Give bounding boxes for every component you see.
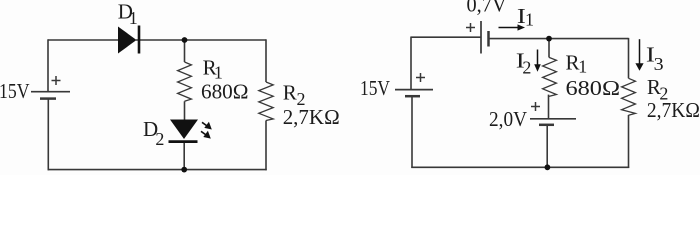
wire: left circuit middle branch LED to bottom rail: [183, 142, 185, 170]
svg-text:1: 1: [129, 8, 138, 28]
node: right circuit bottom junction dot: [545, 164, 551, 170]
wire: left circuit bottom rail: [48, 169, 267, 171]
svg-text:2: 2: [522, 58, 531, 78]
wire: right circuit left vertical above battery: [410, 37, 412, 90]
battery 15V (right circuit) short negative plate: [405, 95, 420, 98]
wire: right circuit right vertical below R2: [628, 115, 630, 168]
node: left circuit bottom junction dot: [181, 167, 187, 173]
wire: left circuit right vertical below R2: [265, 121, 267, 171]
battery 15V (right circuit) plus sign: [416, 73, 425, 82]
svg-text:2: 2: [155, 129, 164, 149]
svg-text:2,7KΩ: 2,7KΩ: [283, 105, 340, 129]
svg-text:R: R: [283, 81, 297, 105]
LED D2 light emission arrow lower: [201, 131, 211, 139]
resistor R1 (right circuit, 680 ohm) zigzag: [543, 57, 557, 96]
wire: right circuit bottom rail: [411, 166, 629, 168]
LED D2 (left circuit) triangle pointing down: [170, 120, 198, 140]
wire: right circuit right vertical above R2: [628, 38, 630, 78]
svg-text:1: 1: [578, 57, 587, 77]
svg-text:2,7KΩ: 2,7KΩ: [647, 98, 700, 122]
diode D1 cathode bar: [138, 26, 141, 54]
wire: left circuit left vertical below battery: [47, 99, 49, 171]
wire: left circuit right vertical above R2: [265, 39, 267, 82]
svg-text:0,7V: 0,7V: [467, 0, 507, 17]
wire: left circuit middle branch R1 to LED: [184, 101, 186, 119]
svg-text:680Ω: 680Ω: [201, 79, 249, 103]
battery 15V (right circuit) long positive plate: [395, 89, 433, 91]
battery 0.7V (right circuit top) long positive plate: [480, 21, 482, 54]
svg-text:3: 3: [654, 54, 664, 74]
wire: right circuit middle branch R1 to 2.0V battery: [548, 95, 550, 119]
battery 2.0V plus sign: [531, 102, 540, 111]
LED D2 light emission arrow upper: [202, 122, 212, 130]
wire: right circuit left vertical below battery: [411, 96, 413, 168]
LED D2 cathode bar: [169, 140, 198, 143]
wire: left circuit top rail after diode: [136, 39, 266, 41]
svg-text:2,0V: 2,0V: [489, 107, 527, 131]
wire: left circuit left vertical above battery: [47, 39, 49, 91]
wire: right circuit top rail right of battery: [489, 38, 629, 40]
diode D1 (left circuit) anode triangle: [118, 27, 137, 54]
resistor R1 (left circuit, 680 ohm) zigzag: [178, 62, 192, 101]
battery 2.0V (right circuit middle) long positive plate: [530, 118, 576, 120]
wire: left circuit top rail: [48, 39, 119, 41]
battery 0.7V plus sign: [466, 23, 475, 32]
node: right circuit top junction dot: [546, 36, 552, 42]
node: left circuit top junction dot: [182, 37, 188, 43]
current arrow I3 (right circuit right branch): [635, 39, 643, 71]
svg-text:680Ω: 680Ω: [566, 76, 621, 100]
wire: right circuit middle branch 2.0V battery to bottom rail: [546, 125, 548, 168]
wire: right circuit middle branch node to R1: [548, 39, 550, 58]
resistor R2 (left circuit, 2.7K ohm) zigzag: [259, 82, 273, 121]
battery 15V (left circuit) long positive plate: [31, 91, 70, 93]
battery 2.0V (right circuit middle) short negative plate: [539, 124, 554, 127]
battery 15V (left circuit) plus sign: [52, 76, 61, 85]
svg-text:15V: 15V: [0, 79, 30, 103]
svg-text:15V: 15V: [360, 76, 390, 100]
current arrow I1 (right circuit top): [499, 24, 526, 30]
resistor R2 (right circuit, 2.7K ohm) zigzag: [622, 78, 636, 115]
battery 15V (left circuit) short negative plate: [40, 97, 56, 100]
wire: right circuit top rail left of battery: [411, 36, 481, 38]
wire: left circuit middle branch from node to R1: [184, 40, 186, 62]
battery 0.7V (right circuit top) short negative plate: [487, 31, 490, 47]
current arrow I2 (right circuit middle branch): [534, 50, 541, 72]
svg-text:1: 1: [525, 10, 534, 30]
